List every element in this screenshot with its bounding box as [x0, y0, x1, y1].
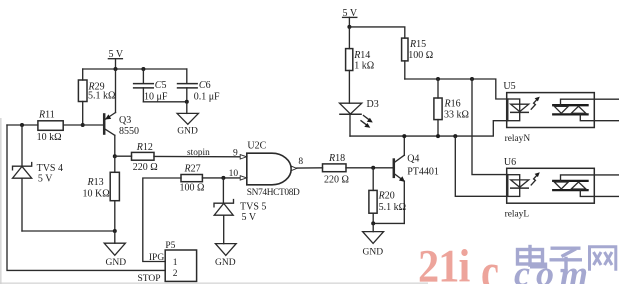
resistor R20: [369, 168, 406, 224]
watermark 21ic: [418, 239, 499, 284]
wire U6 cathode feed: [455, 136, 508, 196]
svg-text:U2C: U2C: [247, 141, 266, 152]
transistor Q4: [394, 136, 439, 223]
svg-text:R16: R16: [444, 98, 461, 109]
wire C5-C6 bottom rail: [143, 101, 186, 103]
node 5V (right): [343, 8, 358, 27]
svg-text:IPG: IPG: [149, 253, 164, 263]
resistor R11: [37, 109, 64, 143]
resistor R16: [434, 79, 469, 136]
ground GND (under TVS5): [215, 244, 236, 268]
triac inside U6: [552, 181, 589, 190]
svg-text:D3: D3: [367, 99, 379, 110]
svg-text:R20: R20: [378, 191, 395, 202]
junction U6 anode branch: [470, 77, 474, 81]
wire R18 to Q4 base: [346, 167, 393, 169]
svg-text:220 Ω: 220 Ω: [324, 174, 349, 185]
resistor R15: [402, 38, 434, 79]
capacitor C5: [133, 69, 168, 102]
svg-text:Q3: Q3: [119, 115, 131, 126]
junction TVS4 top: [20, 123, 24, 127]
svg-text:33 kΩ: 33 kΩ: [444, 109, 469, 120]
wire Q4 emitter to R20 bottom: [373, 222, 404, 224]
svg-text:10 kΩ: 10 kΩ: [37, 132, 62, 143]
svg-text:relayN: relayN: [505, 134, 531, 144]
wire stopin net to gate pin 9: [154, 155, 240, 157]
LED inside U6: [510, 172, 540, 188]
svg-text:TVS 4: TVS 4: [37, 163, 63, 174]
resistor R18: [323, 153, 349, 185]
pin 9 input arrowhead: [240, 155, 246, 159]
junction R29 bottom / base wire: [81, 123, 85, 127]
junction R16 bottom: [436, 134, 440, 138]
wire U5 triac bottom lead: [580, 114, 619, 120]
ground GND (under C5/C6): [177, 102, 198, 137]
junction TVS5 top: [221, 176, 225, 180]
junction R13 bottom / TVS4 / GND: [113, 229, 117, 233]
svg-text:220 Ω: 220 Ω: [133, 162, 158, 173]
svg-text:R11: R11: [38, 109, 55, 120]
wire TVS4 bottom to ground node: [22, 230, 115, 232]
TVS D4 (TVS 4, 5V): [13, 125, 64, 231]
svg-text:8: 8: [298, 157, 303, 167]
resistor R29: [78, 69, 115, 125]
wire collector to R12: [115, 155, 132, 157]
svg-text:5 V: 5 V: [38, 173, 53, 184]
junction R20 bottom / emitter: [371, 221, 375, 225]
svg-text:R12: R12: [136, 142, 153, 153]
svg-text:10: 10: [229, 169, 239, 179]
svg-text:C5: C5: [155, 80, 167, 91]
relay U6 (opto-triac): [504, 157, 594, 220]
svg-text:1 kΩ: 1 kΩ: [354, 61, 374, 72]
ground GND (under R13): [104, 231, 126, 268]
svg-text:GND: GND: [177, 127, 198, 137]
svg-text:2: 2: [173, 269, 178, 279]
LED inside U5: [510, 97, 540, 113]
svg-text:8550: 8550: [119, 126, 139, 137]
watermark 电子网: [518, 245, 616, 271]
resistor R27: [180, 163, 205, 193]
wire U5 triac top lead: [561, 99, 619, 105]
svg-text:com: com: [514, 254, 588, 284]
svg-text:21i: 21i: [418, 239, 470, 284]
ground GND (under R20): [363, 223, 384, 257]
svg-text:100 Ω: 100 Ω: [180, 183, 205, 194]
svg-text:C6: C6: [199, 80, 211, 91]
pin 8 output arrowhead: [291, 166, 296, 170]
svg-text:GND: GND: [363, 247, 384, 257]
svg-text:10 KΩ: 10 KΩ: [83, 188, 110, 199]
svg-text:R27: R27: [184, 163, 201, 174]
pin 10 input arrowhead: [240, 176, 246, 180]
svg-text:SN74HCT08D: SN74HCT08D: [247, 188, 300, 198]
svg-text:GND: GND: [215, 258, 236, 268]
svg-text:10 μF: 10 μF: [144, 91, 168, 102]
svg-text:0.1 μF: 0.1 μF: [194, 92, 220, 103]
wire gate output to R18: [297, 167, 323, 169]
junction C6 bottom / GND: [185, 100, 189, 104]
svg-text:P5: P5: [165, 241, 175, 251]
junction U6 cathode branch: [453, 134, 457, 138]
junction R20 top: [371, 166, 375, 170]
node 5V (left): [108, 49, 123, 69]
resistor R12: [132, 142, 158, 173]
wire cathode rail (D3 bottom, y=136): [350, 121, 508, 136]
junction Q4 collector: [402, 134, 406, 138]
svg-text:c: c: [481, 243, 499, 284]
diode D3 (LED): [339, 99, 379, 136]
wire 5V branch to R15: [349, 27, 404, 38]
junction 5V / R14 / R15 branch: [347, 25, 351, 29]
wire R11 to Q3 base: [63, 124, 103, 126]
svg-text:R13: R13: [87, 177, 104, 188]
relay U5 (opto-triac): [503, 81, 594, 144]
svg-text:Q4: Q4: [407, 154, 419, 165]
wire U6 triac bottom lead: [580, 190, 619, 196]
resistor R13: [83, 156, 120, 231]
junction Q3 collector node: [113, 154, 117, 158]
svg-text:stopin: stopin: [187, 148, 210, 158]
capacitor C6: [177, 69, 220, 103]
svg-text:R18: R18: [328, 153, 345, 164]
connector P5: [165, 241, 196, 281]
triac inside U5: [552, 105, 589, 114]
junction 5V stub / Q3 emitter: [114, 67, 118, 71]
op-amp U2C (AND gate SN74HCT08D): [247, 141, 300, 198]
wire U6 triac top lead: [561, 175, 619, 181]
wire U6 anode feed: [472, 79, 508, 175]
svg-text:5.1 kΩ: 5.1 kΩ: [88, 91, 115, 102]
svg-text:GND: GND: [106, 258, 127, 268]
junction R16 top: [436, 77, 440, 81]
svg-text:5 V: 5 V: [242, 212, 257, 223]
wire base net to R11: [7, 124, 38, 126]
svg-text:U5: U5: [503, 81, 515, 92]
svg-text:relayL: relayL: [505, 210, 530, 220]
wire STOP net (left vertical + bottom run): [7, 125, 165, 270]
svg-text:U6: U6: [504, 157, 516, 168]
svg-text:STOP: STOP: [138, 274, 161, 284]
svg-text:PT4401: PT4401: [407, 166, 439, 177]
svg-text:R15: R15: [409, 39, 426, 50]
wire anode rail (R15 bottom, y=79): [405, 79, 508, 99]
svg-text:1: 1: [173, 258, 178, 268]
svg-text:100 Ω: 100 Ω: [408, 50, 433, 61]
wire 5V rail (left): [83, 68, 187, 70]
svg-text:R14: R14: [353, 50, 370, 61]
resistor R14: [346, 27, 375, 103]
svg-text:TVS 5: TVS 5: [240, 201, 266, 212]
transistor Q3: [104, 69, 139, 156]
svg-text:5.1 kΩ: 5.1 kΩ: [379, 202, 406, 213]
wire IPG net (P5 pin1 up to R27): [143, 178, 181, 262]
TVS D5 (TVS 5, 5V): [214, 178, 266, 244]
junction C5 top: [141, 67, 145, 71]
wire R27 to gate pin 10: [202, 177, 240, 179]
svg-text:9: 9: [233, 149, 238, 159]
